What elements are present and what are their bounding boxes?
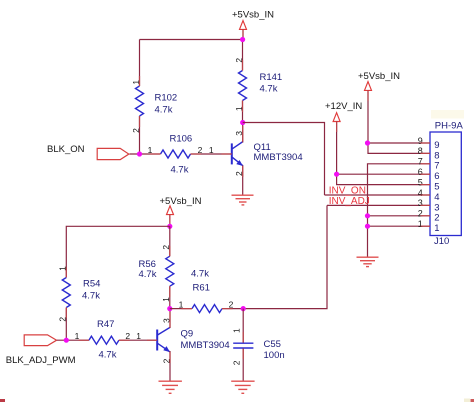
wire pin stub power right: [367, 90, 369, 101]
wire Q11 collector: [242, 123, 244, 143]
svg-text:2: 2: [125, 331, 130, 341]
wire R102 bottom stub: [139, 116, 141, 154]
svg-text:R106: R106: [170, 134, 193, 145]
wire pin stub J10 pin2: [421, 215, 431, 217]
svg-text:100n: 100n: [264, 350, 285, 361]
wire pin stub R106 pin1: [150, 153, 161, 155]
connector J10 highlight: [431, 110, 464, 119]
wire pin2: [368, 215, 431, 217]
wire pin stub R47 pin1: [79, 339, 89, 341]
wire collector to INV_ON: [243, 123, 325, 196]
resistor R54: [62, 278, 70, 308]
wire +5Vsb stem to pin8: [368, 90, 430, 153]
wire C55 bottom stub: [242, 349, 244, 381]
wire pin stub power bottom: [169, 215, 171, 224]
wire INV_ADJ to R61: [243, 205, 327, 308]
wire pin stub Q11 collector: [242, 126, 244, 142]
wire pin stub J10 pin6: [421, 173, 431, 175]
svg-text:2: 2: [198, 145, 203, 155]
resistor R141 top stub: [242, 40, 244, 71]
svg-text:6: 6: [434, 171, 439, 182]
svg-text:8: 8: [434, 150, 439, 161]
svg-text:4.7k: 4.7k: [191, 269, 209, 280]
wire pin stub R61 pin2: [222, 308, 233, 310]
wire pin stub Q9 base: [147, 339, 157, 341]
ground under C55: [231, 381, 254, 393]
svg-text:1: 1: [136, 331, 141, 341]
wire R56 bottom stub: [169, 286, 171, 308]
wire pin stub Q11 emitter: [242, 166, 244, 177]
pin stubs (bright red pin segments): [66, 29, 430, 363]
wire bottom power stem: [169, 215, 171, 227]
svg-text:4: 4: [434, 192, 439, 203]
wire pin stub J10 pin9: [421, 142, 431, 144]
svg-text:5: 5: [418, 177, 423, 187]
wire pin stub J10 pin3: [421, 204, 431, 206]
node +12V pin6 junction: [334, 172, 339, 177]
wire +12V_IN stem: [337, 121, 430, 184]
svg-text:PH-9A: PH-9A: [435, 120, 464, 131]
wire pin stub R61 pin1: [182, 308, 193, 310]
wire R56 top stub: [169, 226, 171, 256]
svg-text:4: 4: [418, 188, 423, 198]
svg-text:5: 5: [434, 182, 439, 193]
resistor R141: [239, 71, 247, 101]
wire pin stub R141 pin2: [242, 60, 244, 71]
resistor R102: [136, 86, 144, 116]
svg-text:4.7k: 4.7k: [260, 84, 278, 95]
port BLK_ADJ_PWM symbol: [24, 335, 56, 346]
wire pin stub Q11 base: [222, 153, 232, 155]
transistor Q11: [232, 142, 243, 167]
svg-text:MMBT3904: MMBT3904: [181, 340, 230, 351]
wire pin stub Q9 emitter: [169, 352, 171, 363]
wire pin6: [337, 173, 430, 175]
wire pin stub R102 pin2: [139, 116, 141, 127]
ground under Q9: [159, 381, 182, 393]
wire R54 bottom stub: [65, 308, 67, 341]
wire R106 to Q11 base: [191, 153, 232, 155]
svg-text:9: 9: [418, 136, 423, 146]
transistor Q9: [157, 327, 170, 352]
wire pin stub Q9 collector: [169, 312, 171, 327]
svg-text:C55: C55: [264, 339, 281, 350]
wire net INV_ADJ: [327, 204, 430, 206]
svg-text:BLK_ON: BLK_ON: [47, 144, 85, 155]
resistor R61: [192, 305, 222, 313]
wire top rail: [140, 39, 243, 41]
svg-text:2: 2: [434, 213, 439, 224]
svg-text:R102: R102: [155, 93, 178, 104]
resistor R47: [89, 336, 119, 344]
svg-text:4.7k: 4.7k: [155, 105, 173, 116]
wire BLK_ADJ_PWM to R47: [57, 339, 89, 341]
svg-text:+12V_IN: +12V_IN: [325, 101, 362, 112]
svg-text:MMBT3904: MMBT3904: [254, 152, 303, 163]
wire pin stub J10 pin7: [421, 163, 431, 165]
svg-text:4.7k: 4.7k: [171, 165, 189, 176]
wire pin stub R106 pin2: [191, 153, 202, 155]
ground under connector rail: [357, 257, 379, 266]
svg-text:4.7k: 4.7k: [139, 269, 157, 280]
node R61 C55 junction: [241, 306, 246, 311]
wire pin stub R102 pin1: [139, 76, 141, 86]
node BLK_ADJ_PWM junction: [64, 338, 69, 343]
wire pin7 to ground rail: [368, 164, 431, 257]
node pin9 junction: [365, 140, 370, 145]
svg-text:R47: R47: [97, 319, 114, 330]
svg-text:Q9: Q9: [181, 329, 194, 340]
power +5Vsb_IN (bottom) arrow symbol: [167, 206, 174, 215]
wire pin stub power top: [242, 29, 244, 36]
node R56 bottom junction: [167, 306, 172, 311]
svg-text:R61: R61: [193, 283, 210, 294]
wire pin stub J10 pin5: [421, 184, 431, 186]
svg-text:9: 9: [434, 140, 439, 151]
wire pin stub R47 pin2: [119, 339, 130, 341]
svg-text:1: 1: [179, 299, 184, 309]
svg-text:2: 2: [231, 360, 241, 365]
node top rail junction: [240, 37, 245, 42]
node pin2 junction: [365, 213, 370, 218]
wire pin stub R56 pin2: [169, 246, 171, 256]
wire pin stub J10 pin4: [421, 194, 431, 196]
svg-text:7: 7: [418, 157, 423, 167]
wire R102 top stub: [139, 40, 141, 87]
svg-text:1: 1: [231, 328, 241, 333]
wire pin stub J10 pin8: [421, 152, 431, 154]
node R56 top junction: [167, 224, 172, 229]
wire bottom rail: [66, 226, 170, 277]
svg-text:3: 3: [418, 198, 423, 208]
wire pin9: [368, 142, 431, 144]
wire R47 to Q9 base: [119, 339, 157, 341]
svg-text:6: 6: [418, 167, 423, 177]
svg-text:1: 1: [148, 145, 153, 155]
wire pin stub C55 pin1: [242, 332, 244, 343]
svg-text:3: 3: [434, 202, 439, 213]
wire Q9 emitter: [169, 351, 171, 381]
resistor R106: [161, 150, 191, 158]
wire pin stub J10 pin1: [421, 225, 431, 227]
connector J10 body: [430, 132, 461, 236]
svg-text:2: 2: [418, 209, 423, 219]
svg-text:BLK_ADJ_PWM: BLK_ADJ_PWM: [6, 355, 76, 366]
svg-text:7: 7: [434, 161, 439, 172]
cropped element bottom-right: [464, 399, 470, 402]
wire BLK_ON to node: [130, 153, 161, 155]
power +5Vsb_IN (top) arrow symbol: [240, 21, 247, 30]
svg-text:4.7k: 4.7k: [82, 291, 100, 302]
wire R141 bottom stub: [242, 101, 244, 123]
wire pin stub power 12V: [336, 122, 338, 133]
port BLK_ON symbol: [97, 148, 129, 159]
svg-text:R141: R141: [260, 72, 283, 83]
wire C55 top stub: [242, 309, 244, 343]
wire pin1: [368, 225, 431, 227]
wire net INV_ON: [325, 194, 431, 196]
wire power stem to node: [242, 29, 244, 39]
power +12V_IN arrow symbol: [333, 113, 340, 122]
svg-text:4.7k: 4.7k: [99, 350, 117, 361]
svg-text:1: 1: [75, 331, 80, 341]
wire R56 to R61: [170, 308, 192, 310]
svg-text:1: 1: [434, 223, 439, 234]
wire Q11 emitter: [242, 166, 244, 196]
wire pin stub R54 pin1: [65, 268, 67, 278]
svg-text:J10: J10: [434, 236, 449, 247]
node Q11 collector junction: [240, 120, 245, 125]
wire pin stub R54 pin2: [65, 308, 67, 319]
capacitor C55: [233, 343, 253, 348]
svg-text:+5Vsb_IN: +5Vsb_IN: [160, 196, 202, 207]
wire Q9 collector: [169, 309, 171, 328]
svg-text:8: 8: [418, 146, 423, 156]
node BLK_ON junction: [137, 151, 142, 156]
ground under Q11: [232, 195, 254, 205]
wire pin stub R141 pin1: [242, 101, 244, 113]
svg-text:1: 1: [209, 145, 214, 155]
wire pin stub R56 pin1: [169, 286, 171, 297]
power +5Vsb_IN (right) arrow symbol: [365, 82, 372, 91]
wire pin stub C55 pin2: [242, 349, 244, 359]
cropped element bottom-left: [0, 399, 5, 402]
wire R61 to C55 node: [222, 308, 243, 310]
svg-text:+5Vsb_IN: +5Vsb_IN: [232, 10, 274, 21]
node pin1 junction: [365, 224, 370, 229]
svg-text:R54: R54: [83, 279, 100, 290]
svg-text:INV_ADJ: INV_ADJ: [329, 196, 370, 207]
svg-text:+5Vsb_IN: +5Vsb_IN: [358, 71, 400, 82]
resistor R56: [166, 256, 174, 286]
svg-text:1: 1: [418, 219, 423, 229]
svg-text:2: 2: [229, 299, 234, 309]
